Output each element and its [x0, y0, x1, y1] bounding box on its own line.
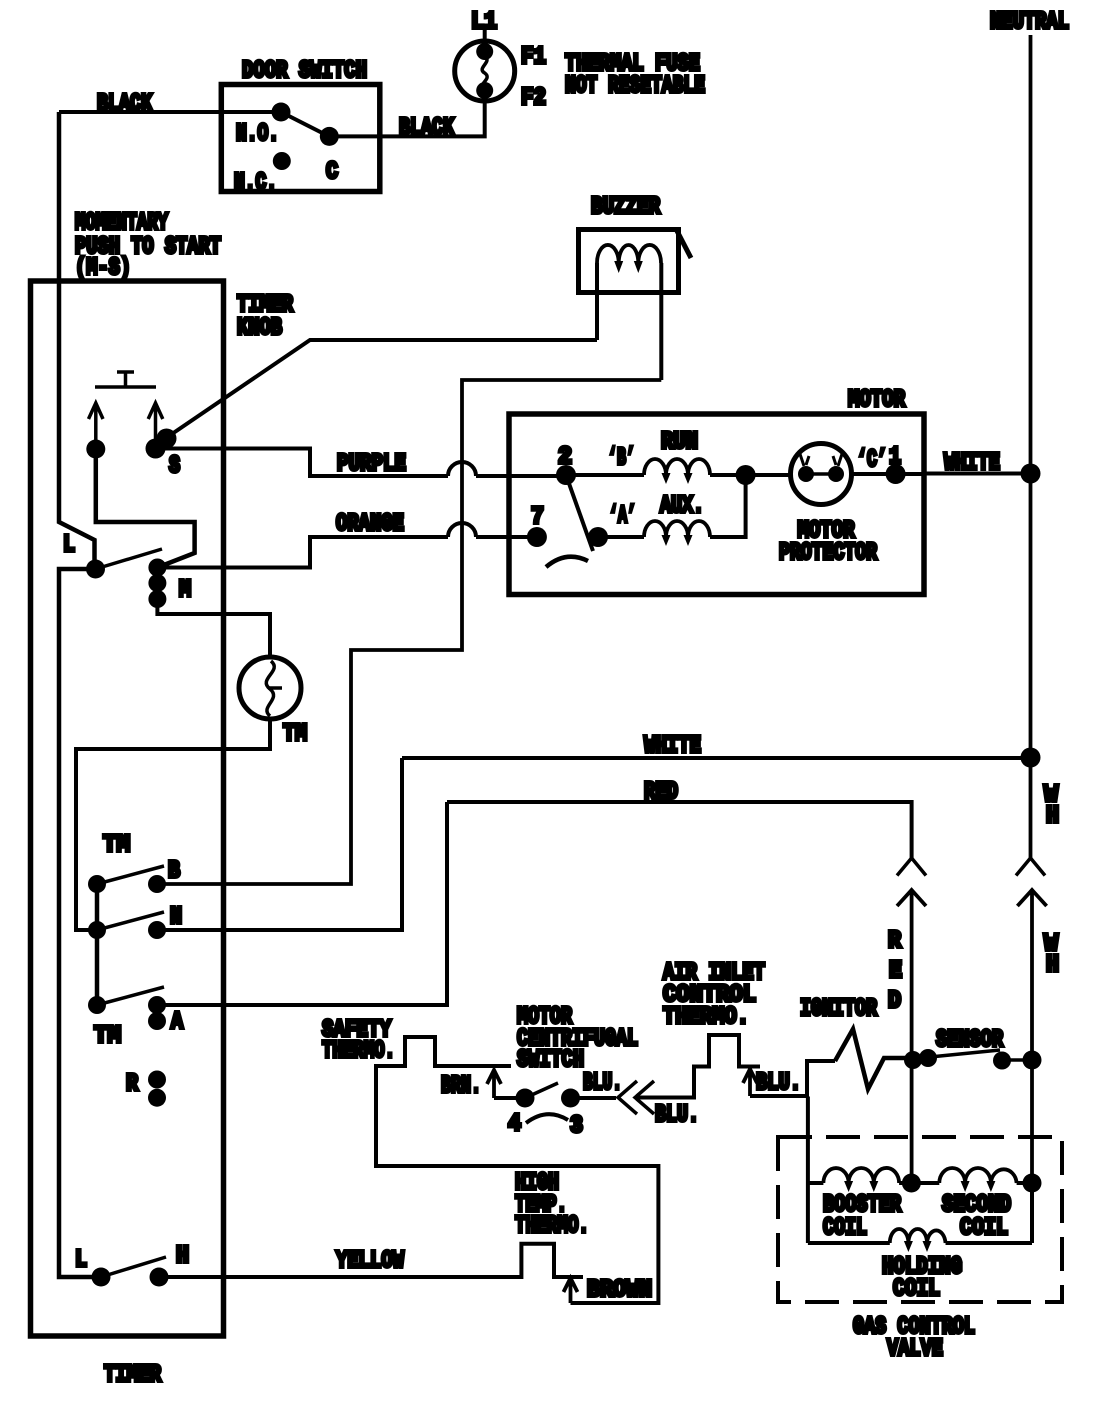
svg-text:COIL: COIL: [960, 1215, 1008, 1242]
svg-text:NEUTRAL: NEUTRAL: [990, 9, 1069, 36]
svg-text:N.O.: N.O.: [236, 121, 279, 148]
svg-text:‘C’: ‘C’: [857, 447, 887, 474]
svg-text:THERMO.: THERMO.: [663, 1004, 749, 1031]
svg-text:E: E: [889, 958, 902, 985]
wire BLACK left: [59, 110, 281, 114]
contact B dot: [148, 875, 166, 893]
svg-text:YELLOW: YELLOW: [336, 1248, 404, 1275]
connector arrow BROWN: [564, 1278, 578, 1303]
svg-text:BLACK: BLACK: [399, 115, 454, 142]
wire second to junction right: [1017, 1181, 1032, 1185]
svg-text:1: 1: [889, 444, 901, 471]
svg-text:R: R: [126, 1071, 138, 1098]
svg-text:TIMER: TIMER: [104, 1362, 161, 1389]
centrifugal motion arc: [526, 1114, 568, 1123]
svg-text:BRN.: BRN.: [441, 1073, 481, 1100]
booster coil: [823, 1168, 899, 1183]
contact TM-A pivot: [88, 996, 106, 1014]
svg-text:H: H: [1046, 952, 1059, 979]
wire M to TM: [157, 599, 270, 657]
svg-text:M: M: [179, 577, 191, 604]
door switch box: [221, 85, 379, 192]
wire coil left bus: [806, 1097, 810, 1244]
contact N dot: [148, 921, 166, 939]
wire sensor right: [1002, 1058, 1032, 1062]
svg-text:D: D: [888, 988, 901, 1015]
contact L arm: [96, 549, 163, 569]
svg-text:VALVE: VALVE: [887, 1336, 943, 1363]
motor box: [509, 414, 924, 595]
wire brown to safety thermo: [376, 1037, 658, 1303]
wire N to WHITE: [157, 758, 402, 930]
motor protector: [791, 444, 852, 505]
svg-text:4: 4: [508, 1111, 521, 1138]
svg-text:THERMO.: THERMO.: [515, 1213, 589, 1240]
svg-text:BLU.: BLU.: [655, 1102, 699, 1129]
svg-text:RED: RED: [644, 779, 678, 806]
contact L pivot dot: [86, 560, 105, 579]
buzzer coil: [597, 245, 661, 263]
svg-text:THERMO.: THERMO.: [322, 1038, 395, 1065]
wire pivot bus B-N-A: [95, 884, 100, 1005]
svg-text:3: 3: [570, 1113, 583, 1140]
contact TM-B pivot: [88, 875, 106, 893]
svg-text:H: H: [176, 1243, 189, 1270]
svg-text:RUN: RUN: [661, 429, 698, 456]
wire booster to junction: [899, 1181, 939, 1185]
contact R dots: [148, 1071, 166, 1089]
buzzer box: [579, 230, 679, 293]
wire 2 to RUN coil: [566, 473, 644, 477]
svg-text:A: A: [171, 1009, 183, 1036]
buzzer tick mark: [676, 229, 691, 258]
svg-text:MOTOR: MOTOR: [848, 387, 905, 414]
junction dot white-neutral: [1021, 464, 1041, 484]
holding coil: [890, 1229, 946, 1243]
svg-text:NOT RESETABLE: NOT RESETABLE: [565, 73, 705, 100]
wire booster row left: [808, 1181, 824, 1185]
svg-text:MOMENTARY: MOMENTARY: [75, 210, 168, 237]
wire buzzer to contact B: [157, 380, 661, 884]
door switch contact C: [320, 127, 339, 146]
wire NEUTRAL vertical: [1029, 35, 1033, 858]
motor terminal 2: [556, 465, 576, 485]
contact dot left arrow: [86, 440, 105, 459]
svg-text:SENSOR: SENSOR: [936, 1027, 1003, 1054]
sensor dots: [904, 1051, 922, 1069]
contact arrow left: [89, 403, 104, 447]
wire buzzer left lead: [595, 263, 599, 340]
junction dot motor: [736, 465, 756, 485]
contact arrow S: [148, 403, 163, 447]
centrifugal contact 3 dot: [561, 1089, 580, 1108]
wire WHITE to neutral: [402, 756, 1031, 760]
wire BRN to contact 4: [494, 1096, 524, 1100]
connector fork RED end: [897, 858, 926, 876]
RUN coil: [644, 459, 710, 475]
svg-text:TM: TM: [283, 721, 307, 748]
door switch contact N.C.: [273, 152, 291, 170]
wire WHITE motor to neutral: [923, 472, 1031, 476]
svg-text:L: L: [63, 532, 75, 559]
svg-text:N: N: [170, 904, 182, 931]
wire connector to air inlet thermo: [635, 1035, 760, 1098]
contact TM-N pivot: [88, 921, 106, 939]
second coil: [939, 1168, 1016, 1183]
contact L-H arm: [101, 1257, 166, 1277]
svg-text:BUZZER: BUZZER: [591, 194, 660, 221]
connector arrow RED: [897, 890, 926, 1183]
contact A arm: [97, 987, 164, 1005]
svg-text:2: 2: [558, 444, 572, 471]
door switch contact N.O.: [272, 103, 291, 122]
motor switch arm: [566, 475, 593, 551]
svg-text:PURPLE: PURPLE: [337, 451, 406, 478]
centrifugal switch arm: [525, 1083, 558, 1098]
svg-text:BROWN: BROWN: [587, 1277, 652, 1304]
svg-text:(M-S): (M-S): [75, 255, 131, 282]
svg-text:BLU.: BLU.: [583, 1070, 622, 1097]
svg-text:WHITE: WHITE: [644, 733, 701, 760]
connector chevrons BLU: [618, 1081, 654, 1114]
timer motor TM: [239, 657, 301, 719]
push button symbol: [95, 372, 156, 387]
connector arrow BRN: [487, 1070, 501, 1098]
svg-text:TM: TM: [94, 1023, 121, 1050]
wire A to AUX coil: [598, 535, 644, 539]
wire L pivot return: [59, 569, 101, 1277]
wire 3 to connector: [571, 1096, 617, 1100]
contact L-H bottom dots: [92, 1268, 111, 1287]
contact S dots: [146, 439, 166, 459]
svg-text:R: R: [888, 928, 902, 955]
svg-text:SWITCH: SWITCH: [517, 1047, 584, 1074]
motor contact A dot: [588, 527, 608, 547]
svg-text:COIL: COIL: [893, 1276, 940, 1303]
contact B arm: [97, 866, 164, 884]
thermal fuse F1-F2: [455, 41, 515, 101]
sensor arm: [930, 1050, 1000, 1057]
wire holding row: [808, 1241, 1032, 1245]
wire black bus left: [59, 112, 95, 560]
svg-text:‘B’: ‘B’: [608, 445, 635, 472]
wire buzzer right lead: [659, 263, 663, 380]
svg-text:‘A’: ‘A’: [609, 503, 636, 530]
svg-text:IGNITOR: IGNITOR: [800, 996, 877, 1023]
motor terminal 1: [886, 464, 906, 484]
svg-text:C: C: [326, 159, 338, 186]
svg-text:AUX.: AUX.: [660, 493, 704, 520]
ignitor zigzag: [835, 1029, 913, 1089]
svg-text:H: H: [1046, 803, 1059, 830]
wire S to motor PURPLE: [156, 449, 567, 477]
wire junction to protector: [746, 473, 791, 477]
svg-text:L: L: [75, 1247, 87, 1274]
junction dot coils left: [902, 1174, 921, 1193]
svg-text:F1: F1: [521, 44, 546, 71]
wire M to motor ORANGE: [157, 523, 536, 568]
svg-text:F2: F2: [521, 85, 546, 112]
svg-text:TM: TM: [103, 832, 130, 859]
junction dot coils right: [1023, 1174, 1042, 1193]
AUX coil: [644, 521, 710, 537]
wire right coil bus: [1030, 1183, 1034, 1243]
wire buzzer to timer knob: [166, 340, 597, 438]
svg-text:BLU.: BLU.: [756, 1070, 801, 1097]
timer box: [31, 281, 224, 1336]
wire C to fuse BLACK: [329, 101, 484, 136]
gas control valve dashed box: [778, 1137, 1062, 1302]
svg-text:N.C.: N.C.: [234, 170, 277, 197]
svg-text:PROTECTOR: PROTECTOR: [779, 540, 877, 567]
wire TM to pivot bus: [76, 719, 270, 930]
contact N arm: [97, 912, 164, 930]
connector fork WH neutral end: [1016, 858, 1045, 876]
connector arrow BLU ignitor: [743, 1069, 757, 1096]
wire RUN to junction: [710, 473, 746, 477]
wire L1 to fuse: [483, 30, 487, 44]
svg-text:7: 7: [531, 504, 544, 531]
motor terminal 7: [527, 527, 547, 547]
contact M dots: [148, 559, 166, 577]
connector arrow WH: [1017, 890, 1046, 1183]
wire arrow contact to M: [96, 449, 195, 568]
svg-text:DOOR SWITCH: DOOR SWITCH: [242, 58, 367, 85]
centrifugal contact 4 dot: [516, 1089, 535, 1108]
junction dot white2: [1021, 748, 1041, 768]
wire A to RED: [157, 802, 447, 1005]
svg-text:KNOB: KNOB: [237, 315, 282, 342]
door switch arm: [281, 112, 329, 136]
wire AUX to junction: [710, 475, 746, 537]
svg-text:S: S: [169, 453, 180, 480]
svg-text:BLACK: BLACK: [97, 91, 152, 118]
svg-text:B: B: [168, 858, 180, 885]
wire BLU to ignitor: [750, 1061, 835, 1096]
svg-text:COIL: COIL: [823, 1215, 867, 1242]
contact A dots: [148, 996, 166, 1014]
motor switch motion arc: [546, 557, 588, 567]
wire protector to terminal 1: [852, 472, 923, 476]
wire YELLOW with high temp thermo notch: [159, 1244, 583, 1277]
svg-text:ORANGE: ORANGE: [336, 511, 404, 538]
wire RED: [447, 802, 912, 858]
svg-text:WHITE: WHITE: [944, 450, 1000, 477]
